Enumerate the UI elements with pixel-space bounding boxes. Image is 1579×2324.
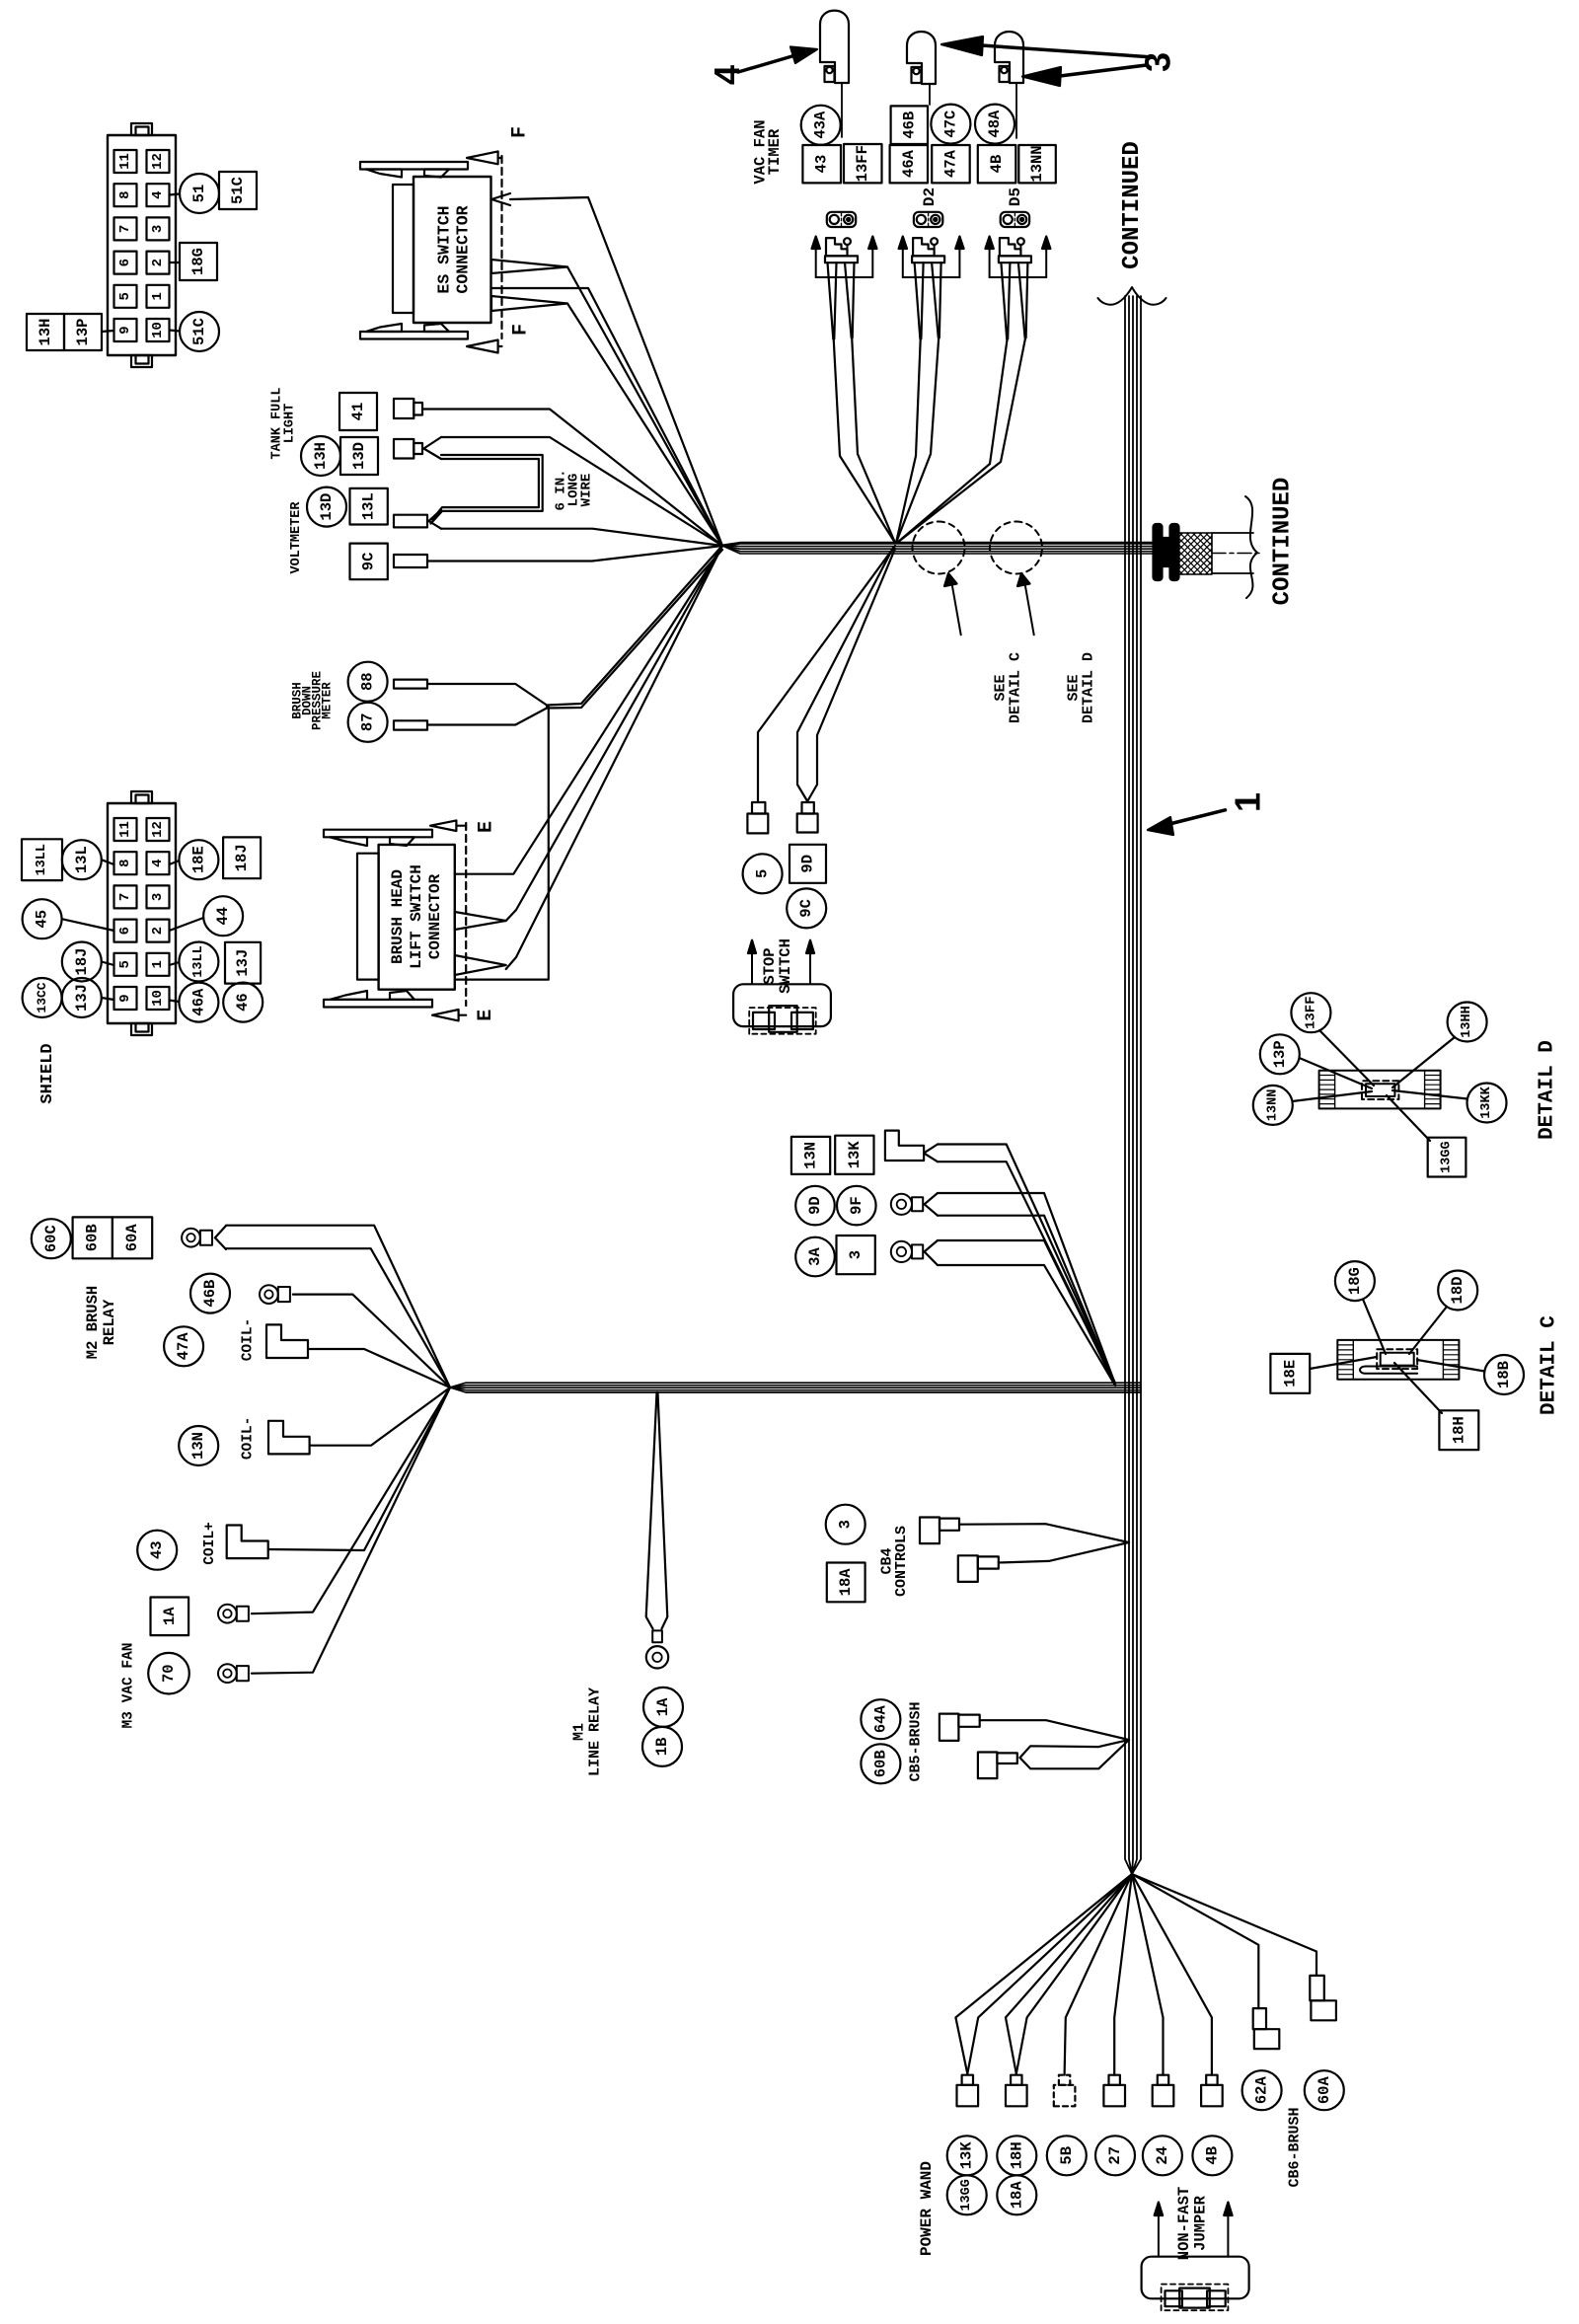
connector wing [330,837,367,846]
wire coil-2 [310,1387,450,1446]
2-pin plug symbol [914,212,942,227]
svg-text:18G: 18G [1346,1267,1364,1295]
node 3 circle [826,1505,865,1544]
svg-text:M1: M1 [571,1723,588,1741]
svg-text:13H: 13H [312,442,330,470]
svg-text:8: 8 [117,859,133,866]
terminal spade [1011,2075,1021,2085]
flag terminal [885,1131,924,1161]
svg-text:E: E [475,1010,497,1021]
connector bottom tab [131,355,152,367]
wire 6 in. long wire U [431,455,543,524]
CB6 connector 60A [1310,1976,1324,2000]
svg-text:13NN: 13NN [1028,145,1046,182]
svg-text:51: 51 [190,185,208,203]
node 13H box [27,314,64,350]
ring terminal [260,1285,278,1304]
svg-text:8: 8 [117,190,133,198]
wire CB4 A [959,1524,1129,1542]
svg-text:ES SWITCH: ES SWITCH [435,205,454,293]
svg-text:13HH: 13HH [1460,1006,1474,1037]
node 60B box [73,1217,113,1258]
terminal 13L blade [394,515,427,528]
pin 11 [114,150,137,173]
svg-text:13D: 13D [350,442,368,470]
svg-text:3: 3 [150,893,166,901]
node 41 box [339,393,377,430]
node 18H box [1439,1410,1478,1450]
see detail D circle [990,522,1042,574]
svg-text:13N: 13N [189,1432,207,1460]
connector body [108,135,176,355]
svg-text:12: 12 [150,821,166,838]
svg-text:51C: 51C [229,177,247,204]
wire M3 70 [252,1387,450,1674]
wire meter pair to junction [547,548,720,706]
node 9C box [350,544,388,580]
bulb lead wire [841,83,843,137]
node 18A circle [997,2175,1036,2214]
terminal stop 1 spade [747,814,768,834]
terminal 87 blade [394,720,427,729]
node 18D circle [1438,1271,1477,1311]
wire T5 [1132,1874,1164,2075]
wire 88 [427,684,547,706]
svg-text:46A: 46A [900,149,918,178]
svg-text:METER: METER [321,682,335,719]
brush head lift switch connector body [379,845,455,990]
node 18B circle [1484,1355,1524,1394]
ES connector wing [366,324,402,332]
svg-text:9D: 9D [806,1196,824,1215]
svg-text:TIMER: TIMER [766,128,784,175]
svg-text:CONTROLS: CONTROLS [893,1526,910,1597]
svg-text:60C: 60C [42,1225,60,1252]
terminal spade [1109,2075,1120,2085]
node 18G circle [1335,1261,1375,1301]
svg-text:60A: 60A [1316,2076,1333,2105]
wire ES W4 [491,296,567,311]
node 13GG box [1428,1138,1466,1177]
node 13K circle [947,2136,987,2175]
terminal 41 spade [394,399,414,418]
connector bottom tab [131,1023,152,1035]
node 43 circle [137,1531,177,1570]
plug latch symbol [913,238,935,256]
svg-text:7: 7 [117,893,133,901]
svg-text:COIL-: COIL- [241,1417,257,1461]
svg-text:5: 5 [117,292,133,300]
node 87 circle [348,703,388,742]
svg-text:13CC: 13CC [35,982,49,1012]
node 51 [180,174,219,213]
node 13N box [791,1137,830,1174]
ring terminal [182,1229,200,1247]
lamp bulb [820,11,849,83]
svg-text:87: 87 [359,712,377,731]
break squiggle [1245,496,1257,598]
wire 18G leader [1363,1300,1386,1355]
svg-text:18A: 18A [1008,2181,1025,2210]
svg-text:9C: 9C [360,553,378,571]
node 13D box [340,437,378,475]
node 13H circle [301,436,340,476]
svg-text:13L: 13L [73,846,91,873]
wire continued outline [1212,532,1253,534]
svg-text:5: 5 [117,960,133,968]
svg-text:4: 4 [707,65,747,85]
node 1A circle [643,1687,683,1727]
node 13HH circle [1448,1003,1487,1042]
CB4 connector A [920,1518,940,1544]
svg-text:44: 44 [214,907,232,926]
svg-text:18G: 18G [189,248,207,275]
see detail D leader [1023,577,1033,635]
splice cap hatch [1319,1071,1335,1109]
wire 18E leader [1310,1357,1377,1369]
svg-text:13FF: 13FF [854,145,871,182]
node 13D circle [307,487,346,527]
svg-text:6: 6 [117,927,133,935]
pin 5 [114,953,137,976]
svg-text:60A: 60A [123,1224,141,1252]
wire ES W2 [491,260,567,273]
svg-text:1: 1 [150,292,166,300]
svg-text:BRUSH HEAD: BRUSH HEAD [389,869,407,964]
CB6 connector 62A [1253,2008,1266,2029]
svg-text:46A: 46A [189,988,207,1016]
svg-text:5: 5 [754,869,772,878]
coil lug 2 [268,1421,310,1455]
node 13L box [350,488,388,525]
svg-text:VOLTMETER: VOLTMETER [289,501,304,574]
svg-text:27: 27 [1106,2146,1124,2165]
node 18J circle [62,942,102,982]
ES connector wing [366,170,402,178]
section arrow F top [467,151,498,164]
stop switch body [733,984,831,1026]
node 60A box [113,1217,152,1258]
pin 7 [114,885,137,908]
node 1B circle [642,1727,682,1766]
svg-text:13P: 13P [74,319,92,346]
splice cap hatch [1443,1340,1459,1380]
svg-text:9: 9 [117,994,133,1002]
svg-text:18D: 18D [1449,1277,1466,1305]
svg-text:NON-FAST: NON-FAST [1175,2187,1193,2260]
wire T4 [1114,1874,1132,2075]
wire 62A connector [1132,1874,1258,2008]
node 13NN circle [1253,1086,1293,1125]
node 13K box [835,1136,873,1174]
svg-text:M2 BRUSH: M2 BRUSH [84,1286,102,1359]
release arrows [989,249,991,277]
wire 13P leader [1300,1058,1373,1088]
brush head connector flange bottom [324,1000,432,1008]
2-pin plug symbol [827,212,856,227]
node 18E circle [179,840,218,879]
wire brush head B [455,912,506,930]
wire 13GG leader [1387,1095,1430,1141]
wire T6 [1132,1874,1212,2075]
terminal spade [1158,2075,1168,2085]
wire pin1 to 13LL [170,962,180,965]
node 13J box [225,942,261,984]
svg-text:18H: 18H [1450,1416,1467,1444]
sheath crosshatch [1176,533,1212,574]
svg-text:13J: 13J [234,949,252,977]
svg-text:9D: 9D [799,855,817,873]
node 18A box [827,1563,865,1603]
svg-text:51C: 51C [190,318,208,345]
svg-text:46B: 46B [201,1280,219,1308]
node 46B circle [190,1274,230,1313]
svg-text:1A: 1A [654,1697,672,1716]
pin 8 [114,184,137,206]
callout 1 arrow [1169,810,1226,824]
wire 13NN leader [1293,1091,1373,1101]
wire pin4 to 18E [170,861,180,864]
ES connector wing [424,324,449,332]
svg-text:13K: 13K [958,2141,976,2170]
section arrow E bottom [432,1010,459,1020]
terminal spade [1206,2075,1217,2085]
svg-text:41: 41 [349,403,367,421]
node 13N circle [179,1426,218,1465]
pin 9 [114,319,137,341]
wire stop 2 pair [797,548,893,801]
svg-text:1A: 1A [161,1607,179,1625]
svg-text:E: E [476,821,498,833]
svg-text:CONTINUED: CONTINUED [1119,141,1146,269]
wire M3 1A [252,1387,450,1613]
wire 87 [427,709,547,725]
svg-text:7: 7 [117,225,133,233]
pin 6 [114,920,137,942]
ES switch connector flange top [360,162,468,170]
wire 13D pair [423,437,441,449]
svg-text:47A: 47A [941,149,959,178]
svg-text:4: 4 [150,190,166,198]
wire ES W3 [491,288,722,546]
plug latch symbol [1000,238,1021,256]
ES connector wing [424,170,449,178]
svg-text:18A: 18A [837,1568,855,1597]
wire 18D leader [1409,1307,1447,1354]
node 46B box [891,106,928,144]
node 60A circle [1305,2070,1344,2110]
svg-text:9: 9 [117,326,133,334]
lamp bulb [995,32,1023,83]
wire coil-1 [308,1349,450,1387]
svg-text:11: 11 [117,821,133,838]
node 9D circle [795,1186,835,1226]
node 13NN box [1018,145,1056,183]
node 46 circle [223,983,263,1022]
splice C hairpin wire [1360,1367,1417,1374]
svg-text:1: 1 [1228,792,1268,812]
wire CB5 A [980,1720,1129,1740]
node 9C circle [787,888,826,928]
pin 7 [114,217,137,240]
node 9F circle [837,1186,876,1226]
svg-text:JUMPER: JUMPER [1192,2195,1210,2251]
wire 60A connector [1132,1874,1316,1976]
wire 13P to pin9 [102,331,114,332]
jumper body [1142,2257,1249,2299]
svg-text:4: 4 [150,859,166,866]
svg-text:13D: 13D [318,493,336,521]
bulb leg [825,66,835,82]
node 44 circle [203,896,243,936]
svg-text:10: 10 [150,990,166,1007]
node 27 circle [1095,2136,1135,2175]
svg-text:D5: D5 [1007,187,1024,206]
svg-text:DETAIL C: DETAIL C [1008,652,1024,723]
terminal spade dashed [1059,2075,1070,2085]
svg-text:1: 1 [150,960,166,968]
svg-text:DETAIL D: DETAIL D [1081,652,1097,723]
wire pin4 to 51 [170,194,181,195]
splice D center connector [1362,1081,1398,1099]
ring terminal [218,1605,237,1623]
ES switch connector flange bottom [360,332,468,339]
wire 9C [427,546,722,562]
ring terminal [218,1664,237,1683]
wire pin10 to 51C [170,331,181,332]
plug prongs [828,262,834,338]
ring terminal [891,1194,912,1215]
wire bundle 2 [450,1383,1141,1387]
node 47A circle [164,1326,203,1366]
node 13LL box [22,839,62,880]
svg-text:18E: 18E [189,846,207,873]
node 9D box [789,845,826,883]
svg-text:3A: 3A [806,1247,824,1266]
pin 12 [147,150,170,173]
wire 18B leader [1417,1360,1484,1372]
svg-text:CB6-BRUSH: CB6-BRUSH [1286,2107,1303,2187]
node 47A box [932,145,970,183]
terminal 9C blade [394,555,427,567]
svg-text:9F: 9F [848,1196,865,1215]
node 3 box [837,1236,875,1274]
node 4B circle [1192,2136,1232,2175]
node 18H circle [997,2136,1036,2175]
node 60C circle [32,1219,71,1258]
plug prongs [1001,262,1007,338]
section line F [500,156,502,338]
stop switch fuse holder [749,1008,816,1034]
node 70 circle [148,1653,189,1694]
wire flag pair [924,1145,938,1154]
node 5 circle [743,854,783,893]
pin 6 [114,252,137,274]
pin 9 [114,987,137,1010]
svg-text:3: 3 [150,225,166,233]
ES switch connector body [414,177,491,323]
svg-text:13J: 13J [73,984,91,1012]
node 13FF circle [1291,993,1330,1032]
jumper fuse holder [1162,2285,1229,2311]
wire 18J to pin5 [102,962,114,966]
brush head connector latch [357,854,379,980]
svg-text:18J: 18J [73,948,91,976]
connector wing [390,991,414,1000]
wire 13KK leader [1392,1090,1467,1099]
node 51C circle [180,312,219,351]
wire 13L to pin8 [102,860,114,864]
splice C center connector [1377,1349,1417,1369]
svg-text:47C: 47C [941,111,959,138]
svg-text:D2: D2 [921,187,939,206]
node 46A circle [179,983,218,1022]
release arrows [815,249,817,277]
svg-text:COIL+: COIL+ [202,1522,218,1565]
node 60B circle [861,1744,900,1783]
terminal 13D spade [394,439,414,459]
svg-text:10: 10 [150,322,166,338]
splice cap hatch [1425,1071,1441,1109]
splice cap hatch [1337,1340,1353,1380]
svg-text:13GG: 13GG [1440,1141,1455,1172]
trunk bundle [1125,296,1132,1874]
node 43A circle [801,106,841,145]
section line E [465,823,467,1006]
svg-text:2: 2 [150,259,166,266]
node 13P box [64,314,102,350]
node 3A circle [795,1237,835,1277]
plug base [825,256,858,262]
svg-text:9C: 9C [797,899,815,918]
svg-text:64A: 64A [871,1705,889,1734]
wire 13HH leader [1392,1037,1455,1087]
pin 3 [147,217,170,240]
pin 10 [147,987,170,1010]
svg-text:45: 45 [34,910,51,929]
wire coil+ [268,1387,450,1550]
svg-text:60B: 60B [871,1750,889,1777]
see detail C circle [913,522,965,574]
svg-text:4B: 4B [1203,2146,1221,2165]
svg-text:LINE RELAY: LINE RELAY [587,1687,604,1776]
connector body [108,803,176,1023]
svg-text:48A: 48A [986,110,1004,138]
2-pin plug symbol [1001,212,1029,227]
wire 18H leader [1394,1363,1442,1413]
plug latch symbol [826,238,848,256]
wire T1 pair [955,1874,1132,2073]
pin 2 [147,920,170,942]
pin 10 [147,319,170,341]
node 88 circle [348,662,388,702]
svg-text:POWER WAND: POWER WAND [918,2161,936,2256]
terminal stop 2 spade [797,814,818,833]
terminal 88 blade [394,680,427,689]
connector top tab [131,123,152,135]
node 18E box [1270,1354,1310,1393]
node 13P circle [1260,1034,1300,1074]
trunk brace [1098,287,1166,305]
pin 1 [147,953,170,976]
wire M1 drop [646,1392,657,1629]
section arrow E top [430,820,456,831]
svg-text:CONNECTOR: CONNECTOR [426,873,444,959]
wire brush head D [455,707,549,980]
svg-text:13K: 13K [846,1141,864,1169]
node 5B circle [1047,2136,1087,2175]
bulb lead wire [929,84,931,105]
